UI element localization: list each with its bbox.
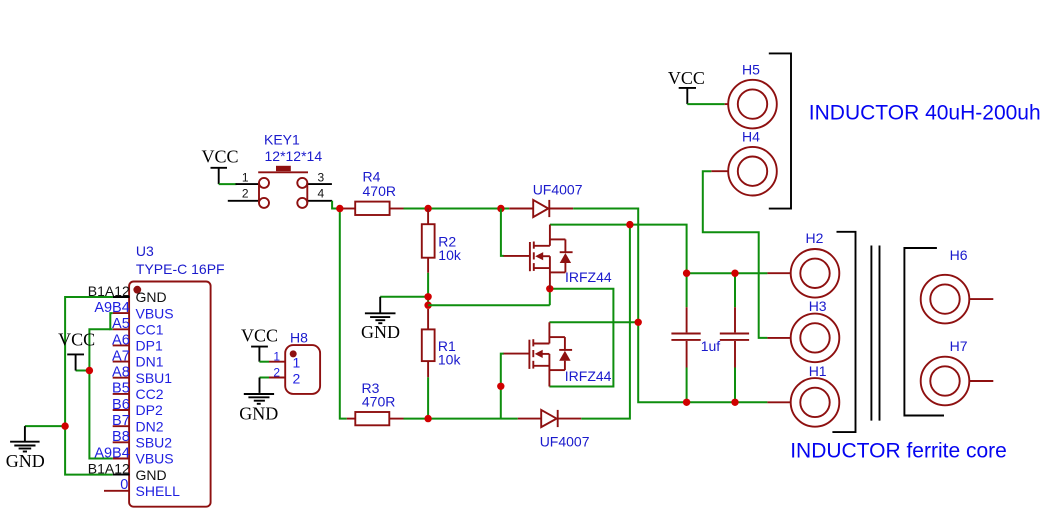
junction at diode D1 anode [497,205,504,212]
svg-text:10k: 10k [438,352,462,368]
svg-text:2: 2 [293,370,301,386]
transistor Q2 IRFZ44 (lower MOSFET) [504,322,573,386]
pad H5 [725,80,777,129]
svg-text:B8: B8 [112,429,130,445]
U3 pin A6 DP1 (pin leg) [113,344,130,346]
bracket for inductor H5/H4 [769,53,791,208]
junction GND node lower (R1 top) [424,302,431,309]
svg-text:A8: A8 [112,365,130,381]
junction on VBUS net at VCC tap [86,367,93,374]
svg-text:CC1: CC1 [136,321,164,337]
svg-text:1: 1 [242,171,249,185]
power symbol VCC (KEY1) [201,147,238,185]
wire Q1 source down to GND rail [549,289,551,305]
junction V2 top at drain rail [626,221,633,228]
svg-text:H8: H8 [290,329,308,345]
wire KEY1 pin 4 to node A [332,201,340,209]
resistor R4 [340,202,404,215]
U3 pin A7 DN1 (pin leg) [113,361,130,363]
svg-text:470R: 470R [363,183,396,199]
H8 pin 1 leg [269,361,285,363]
U3 pin B1A12 GND (pin leg) [113,296,130,298]
wire D1 cathode to V3 down to H1 rail [573,209,767,403]
svg-text:B7: B7 [112,413,130,429]
U3 pin B7 DN2 (pin leg) [113,425,130,427]
svg-text:INDUCTOR 40uH-200uh: INDUCTOR 40uH-200uh [809,101,1041,124]
svg-text:U3: U3 [136,243,154,259]
svg-text:VCC: VCC [58,329,95,349]
diode D1 UF4007 (top) [509,200,573,217]
transistor Q1 IRFZ44 (upper MOSFET) [504,225,573,289]
resistor R3 [347,412,404,425]
svg-text:VCC: VCC [668,68,705,88]
wire VCC tap (USB) [76,370,90,372]
ground symbol GND (left) [6,426,45,471]
junction on USB GND net [61,422,68,429]
resistor R1 [422,309,435,377]
junction H1 rail at C2 [731,399,738,406]
wire Q1 drain rail to H2 rail [550,225,768,274]
svg-text:GND: GND [6,451,45,471]
resistor R2 [422,209,435,273]
pad H6 [921,275,994,324]
wire R2 bottom to GND node [427,273,429,305]
wire Q2 drain to V3 [549,321,638,323]
svg-text:SBU2: SBU2 [136,435,173,451]
svg-text:SBU1: SBU1 [136,370,173,386]
svg-text:H7: H7 [950,338,968,354]
svg-text:470R: 470R [362,393,395,409]
svg-text:B6: B6 [112,397,130,413]
pad H7 [921,357,994,406]
U3 pin A9B4 VBUS (pin leg) [113,312,130,314]
svg-text:12*12*14: 12*12*14 [265,148,323,164]
svg-text:H3: H3 [809,298,827,314]
svg-text:1: 1 [273,350,280,364]
pad H1 [767,378,839,427]
svg-text:VBUS: VBUS [136,305,174,321]
svg-text:1uf: 1uf [701,338,721,354]
power symbol VCC (H8) [241,325,278,361]
wire VBUS net vertical [89,329,112,458]
connector H8 body [285,345,320,394]
U3 pin B1A12 GND lower (pin leg) [113,474,130,476]
svg-text:B5: B5 [112,381,130,397]
svg-text:SHELL: SHELL [136,483,181,499]
svg-text:H6: H6 [950,247,968,263]
svg-text:DP1: DP1 [136,338,163,354]
wire GND node to MOSFET sources [428,304,550,306]
wire Q1 gate drop [501,209,504,256]
junction H1 rail at C1 [683,399,690,406]
pad H2 [767,249,839,298]
junction on Q2 gate drop [497,383,504,390]
svg-text:VBUS: VBUS [136,451,174,467]
ground symbol GND (H8) [239,378,278,424]
svg-text:CC2: CC2 [136,386,164,402]
svg-text:A7: A7 [112,348,130,364]
wire VCC to KEY1 pin 1 [219,183,237,185]
junction V3 at Q2 drain [635,319,642,326]
svg-text:INDUCTOR ferrite core: INDUCTOR ferrite core [790,440,1007,463]
junction Q1 source [546,285,553,292]
wire Q2 gate drop to bottom rail [501,354,504,419]
wire source tie (Q1 source to Q2 source) [549,289,613,387]
svg-text:UF4007: UF4007 [533,182,583,198]
U3 pin 0 SHELL (pin leg) [104,490,130,492]
transformer core line 2 [879,246,881,421]
ground symbol GND (middle) [361,297,400,342]
svg-text:DN1: DN1 [136,354,164,370]
power symbol VCC (inductor H5) [668,68,705,104]
svg-text:2: 2 [242,187,249,201]
svg-text:IRFZ44: IRFZ44 [565,269,612,285]
svg-text:3: 3 [318,171,325,185]
svg-text:DN2: DN2 [136,418,164,434]
wire H4 down to H3 [703,171,768,338]
wire R1 bottom to bottom rail [427,377,429,418]
svg-text:TYPE-C 16PF: TYPE-C 16PF [136,261,225,277]
wire H8 pin 2 to GND [260,377,270,379]
H8 pin 2 leg [269,377,285,379]
svg-text:KEY1: KEY1 [264,132,300,148]
pushbutton KEY1 [228,166,332,208]
wire VCC to H8 pin 1 [259,361,269,363]
svg-text:A5: A5 [112,316,130,332]
svg-text:4: 4 [318,187,325,201]
svg-text:VCC: VCC [241,325,278,345]
capacitor C2 1uf [720,273,749,402]
transformer core line 1 [870,246,872,421]
U3 pin B5 CC2 (pin leg) [113,393,130,395]
wire node A down to bottom rail [340,209,347,419]
svg-text:H5: H5 [742,62,760,78]
U3 pin A9B4 VBUS lower (pin leg) [113,458,130,460]
svg-text:1: 1 [293,355,301,371]
power symbol VCC (USB) [58,329,95,370]
wire R4 to R2/diode node [404,208,510,210]
svg-text:A6: A6 [112,332,130,348]
bracket for secondary H6/H7 [904,248,944,416]
pad H3 [767,314,839,363]
junction bottom rail at R1 [424,415,431,422]
junction GND node upper [424,293,431,300]
wire bottom rail R3 to D2 [404,418,518,420]
svg-text:VCC: VCC [201,147,238,167]
svg-text:GND: GND [239,404,278,424]
connector U3 TYPE-C body [129,282,211,507]
U3 pin B6 DP2 (pin leg) [113,409,130,411]
svg-text:GND: GND [361,322,400,342]
junction H2 rail at C2 [731,270,738,277]
svg-text:10k: 10k [438,247,462,263]
H8 pin-1 marker dot [290,350,297,357]
svg-text:DP2: DP2 [136,402,163,418]
U3 pin-1 marker dot [133,286,141,294]
svg-text:H4: H4 [742,129,760,145]
svg-text:GND: GND [136,467,167,483]
pad H4 [711,147,777,196]
junction node A [336,205,343,212]
wire GND node to middle ground [380,296,428,298]
junction at R2 top [424,205,431,212]
wire GND tap to left ground [25,425,65,427]
junction H2 rail at C1 [683,270,690,277]
bracket for primary H2/H3/H1 [832,232,855,432]
U3 pin A8 SBU1 (pin leg) [113,377,130,379]
svg-text:2: 2 [273,365,280,379]
svg-text:GND: GND [136,289,167,305]
wire VBUS/CC1 staircase [110,313,112,329]
svg-text:0: 0 [120,477,128,493]
svg-text:IRFZ44: IRFZ44 [565,368,612,384]
U3 pin A5 CC1 (pin leg) [113,328,130,330]
wire D2 cathode to V2 up to Q1 drain rail [581,225,630,419]
diode D2 UF4007 (bottom) [518,410,582,427]
wire USB GND net (B1A12 top to B1A12 bottom) [65,297,113,475]
wire VCC to H5 [687,103,724,105]
svg-text:UF4007: UF4007 [540,433,590,449]
U3 pin B8 SBU2 (pin leg) [113,441,130,443]
svg-text:H1: H1 [809,363,827,379]
svg-text:H2: H2 [806,230,824,246]
capacitor C1 1uf [671,273,700,402]
